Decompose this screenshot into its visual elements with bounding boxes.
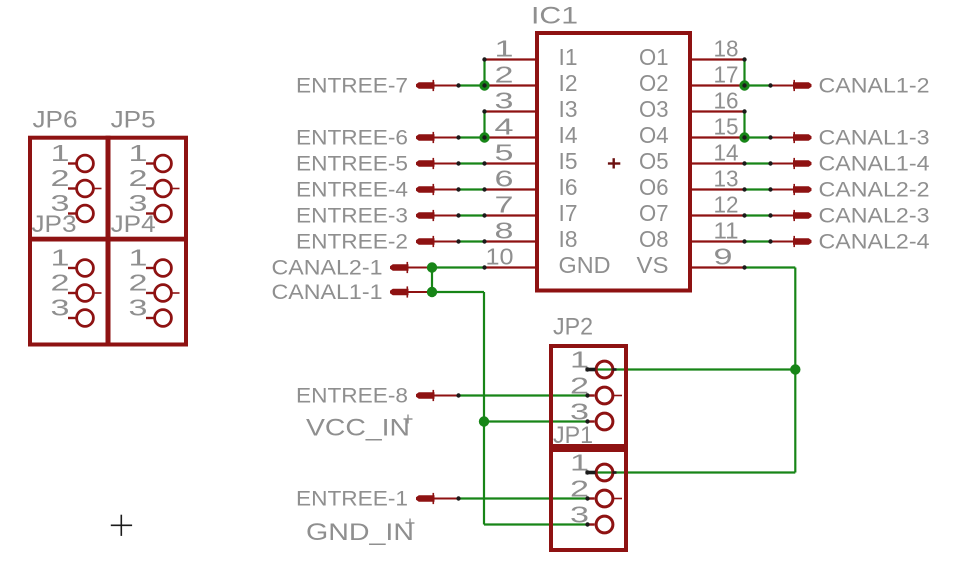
svg-text:I5: I5 bbox=[559, 148, 578, 174]
svg-text:ENTREE-5: ENTREE-5 bbox=[296, 153, 408, 176]
svg-text:CANAL2-3: CANAL2-3 bbox=[819, 205, 930, 228]
svg-text:16: 16 bbox=[714, 88, 739, 114]
svg-text:O5: O5 bbox=[639, 148, 669, 174]
svg-text:JP3: JP3 bbox=[32, 211, 77, 238]
svg-text:CANAL2-2: CANAL2-2 bbox=[819, 179, 930, 202]
svg-text:1: 1 bbox=[51, 140, 70, 166]
svg-text:2: 2 bbox=[495, 62, 514, 88]
svg-text:IC1: IC1 bbox=[531, 3, 578, 30]
svg-text:JP6: JP6 bbox=[33, 107, 78, 134]
svg-text:8: 8 bbox=[495, 218, 514, 244]
svg-text:ENTREE-3: ENTREE-3 bbox=[296, 205, 408, 228]
svg-text:6: 6 bbox=[495, 166, 514, 192]
svg-text:2: 2 bbox=[51, 270, 70, 296]
svg-text:14: 14 bbox=[714, 140, 739, 166]
svg-text:I6: I6 bbox=[559, 174, 578, 200]
svg-text:GND_IN: GND_IN bbox=[306, 519, 414, 546]
svg-text:O6: O6 bbox=[639, 174, 669, 200]
svg-text:ENTREE-8: ENTREE-8 bbox=[296, 385, 408, 408]
svg-text:O4: O4 bbox=[639, 122, 669, 148]
svg-text:15: 15 bbox=[714, 114, 739, 140]
svg-text:ENTREE-6: ENTREE-6 bbox=[296, 127, 408, 150]
svg-text:I2: I2 bbox=[559, 70, 578, 96]
svg-text:CANAL1-2: CANAL1-2 bbox=[819, 75, 930, 98]
svg-text:17: 17 bbox=[714, 62, 739, 88]
svg-text:I1: I1 bbox=[559, 44, 578, 70]
svg-text:10: 10 bbox=[486, 244, 514, 270]
svg-text:CANAL1-4: CANAL1-4 bbox=[819, 153, 930, 176]
svg-text:9: 9 bbox=[714, 244, 733, 270]
svg-text:I7: I7 bbox=[559, 200, 578, 226]
svg-text:I3: I3 bbox=[559, 96, 578, 122]
svg-text:5: 5 bbox=[495, 140, 514, 166]
svg-text:O2: O2 bbox=[639, 70, 669, 96]
svg-text:O7: O7 bbox=[639, 200, 669, 226]
svg-text:3: 3 bbox=[495, 88, 514, 114]
svg-text:VS: VS bbox=[637, 252, 669, 278]
svg-text:ENTREE-2: ENTREE-2 bbox=[296, 231, 408, 254]
svg-text:O3: O3 bbox=[639, 96, 669, 122]
svg-text:ENTREE-7: ENTREE-7 bbox=[296, 75, 408, 98]
svg-text:O1: O1 bbox=[639, 44, 669, 70]
svg-text:ENTREE-4: ENTREE-4 bbox=[296, 179, 408, 202]
svg-text:VCC_IN: VCC_IN bbox=[306, 415, 410, 442]
svg-text:JP2: JP2 bbox=[553, 313, 593, 340]
svg-text:I4: I4 bbox=[559, 122, 578, 148]
svg-text:1: 1 bbox=[129, 140, 148, 166]
svg-text:CANAL2-4: CANAL2-4 bbox=[819, 231, 930, 254]
svg-text:1: 1 bbox=[51, 245, 70, 271]
svg-text:2: 2 bbox=[129, 165, 148, 191]
svg-text:JP1: JP1 bbox=[553, 422, 593, 449]
svg-text:3: 3 bbox=[129, 295, 148, 321]
svg-text:18: 18 bbox=[714, 36, 739, 62]
svg-text:4: 4 bbox=[495, 114, 514, 140]
svg-text:7: 7 bbox=[495, 192, 514, 218]
svg-text:GND: GND bbox=[559, 252, 611, 278]
svg-text:O8: O8 bbox=[639, 226, 669, 252]
svg-text:CANAL1-1: CANAL1-1 bbox=[272, 281, 383, 304]
svg-text:JP5: JP5 bbox=[111, 107, 156, 134]
svg-text:1: 1 bbox=[129, 245, 148, 271]
svg-text:1: 1 bbox=[495, 36, 514, 62]
svg-text:13: 13 bbox=[714, 166, 739, 192]
svg-text:11: 11 bbox=[714, 218, 739, 244]
svg-text:CANAL1-3: CANAL1-3 bbox=[819, 127, 930, 150]
svg-text:2: 2 bbox=[129, 270, 148, 296]
svg-text:JP4: JP4 bbox=[111, 211, 156, 238]
svg-text:12: 12 bbox=[714, 192, 739, 218]
svg-text:I8: I8 bbox=[559, 226, 578, 252]
svg-text:ENTREE-1: ENTREE-1 bbox=[296, 488, 408, 511]
svg-text:2: 2 bbox=[51, 165, 70, 191]
svg-text:CANAL2-1: CANAL2-1 bbox=[272, 257, 383, 280]
svg-text:3: 3 bbox=[51, 295, 70, 321]
